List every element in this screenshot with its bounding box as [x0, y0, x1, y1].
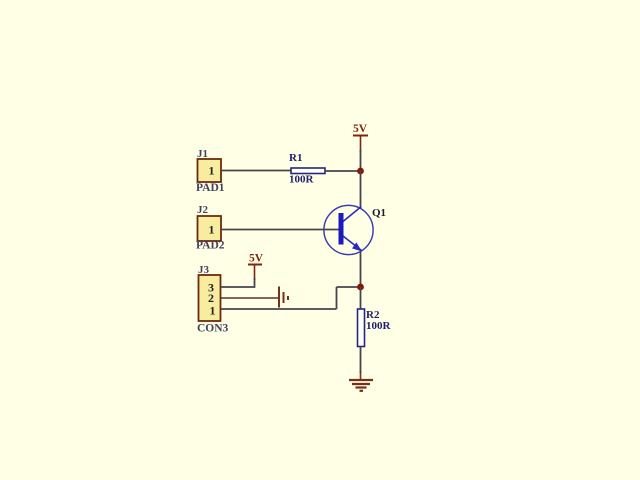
ground stub: [360, 371, 362, 380]
wire J1 pin1 to R1: [221, 170, 291, 172]
svg-text:5V: 5V: [249, 253, 264, 265]
resistor R2 designator label: [366, 309, 380, 321]
connector J2 body: [198, 216, 222, 241]
resistor R1 value label 100R: [289, 174, 315, 186]
connector J1 designator label: [197, 148, 208, 160]
wire J3 pin3 to 5V: [221, 278, 255, 288]
wire 5V to node A: [360, 150, 362, 171]
connector J2 pin 1 number: [209, 223, 215, 237]
svg-text:CON3: CON3: [197, 323, 229, 335]
resistor R1 body: [291, 168, 325, 174]
transistor Q1 body: [324, 205, 373, 254]
connector J1 value label PAD1: [196, 182, 225, 194]
power ground symbol: [349, 380, 373, 391]
transistor Q1 designator label: [372, 207, 386, 219]
connector J3 value label CON3: [197, 323, 229, 335]
connector J3 pin 1 number: [210, 304, 216, 318]
earth ground symbol (rotated): [279, 287, 288, 308]
svg-text:100R: 100R: [289, 174, 315, 186]
svg-text:PAD1: PAD1: [196, 182, 225, 194]
wire node B to R2: [360, 287, 362, 309]
resistor R2 body: [358, 309, 365, 347]
svg-text:1: 1: [210, 304, 216, 318]
svg-text:PAD2: PAD2: [196, 240, 225, 252]
svg-text:R1: R1: [289, 152, 302, 164]
svg-text:J2: J2: [197, 204, 209, 216]
wire J3 pin2 to earth: [221, 297, 279, 299]
node B junction (emitter / R2 / J3 pin1): [357, 284, 364, 291]
resistor R2 value label 100R: [366, 320, 392, 332]
power port 5V (at J3): [248, 253, 264, 281]
power port 5V (top): [353, 123, 368, 152]
connector J1 body: [198, 159, 222, 182]
wire J2 pin1 to Q1 base: [221, 229, 339, 231]
wire R2 to ground: [360, 347, 362, 374]
svg-text:1: 1: [209, 164, 215, 178]
wire R1 to node A: [325, 170, 361, 172]
svg-text:Q1: Q1: [372, 207, 386, 219]
wire node A to Q1 collector: [360, 171, 362, 209]
svg-text:100R: 100R: [366, 320, 392, 332]
connector J3 body: [199, 275, 221, 321]
connector J2 value label PAD2: [196, 240, 225, 252]
svg-text:5V: 5V: [353, 123, 368, 135]
connector J1 pin 1 number: [209, 164, 215, 178]
connector J3 designator label: [198, 264, 210, 276]
connector J3 pin 3 number: [208, 281, 214, 295]
wire J3 pin1 to node B: [221, 287, 361, 309]
wire Q1 emitter to node B: [360, 252, 362, 288]
connector J2 designator label: [197, 204, 209, 216]
svg-text:1: 1: [209, 223, 215, 237]
resistor R1 designator label: [289, 152, 302, 164]
connector J3 pin 2 number: [208, 291, 214, 305]
node A junction (R1 / 5V / collector): [357, 168, 364, 175]
